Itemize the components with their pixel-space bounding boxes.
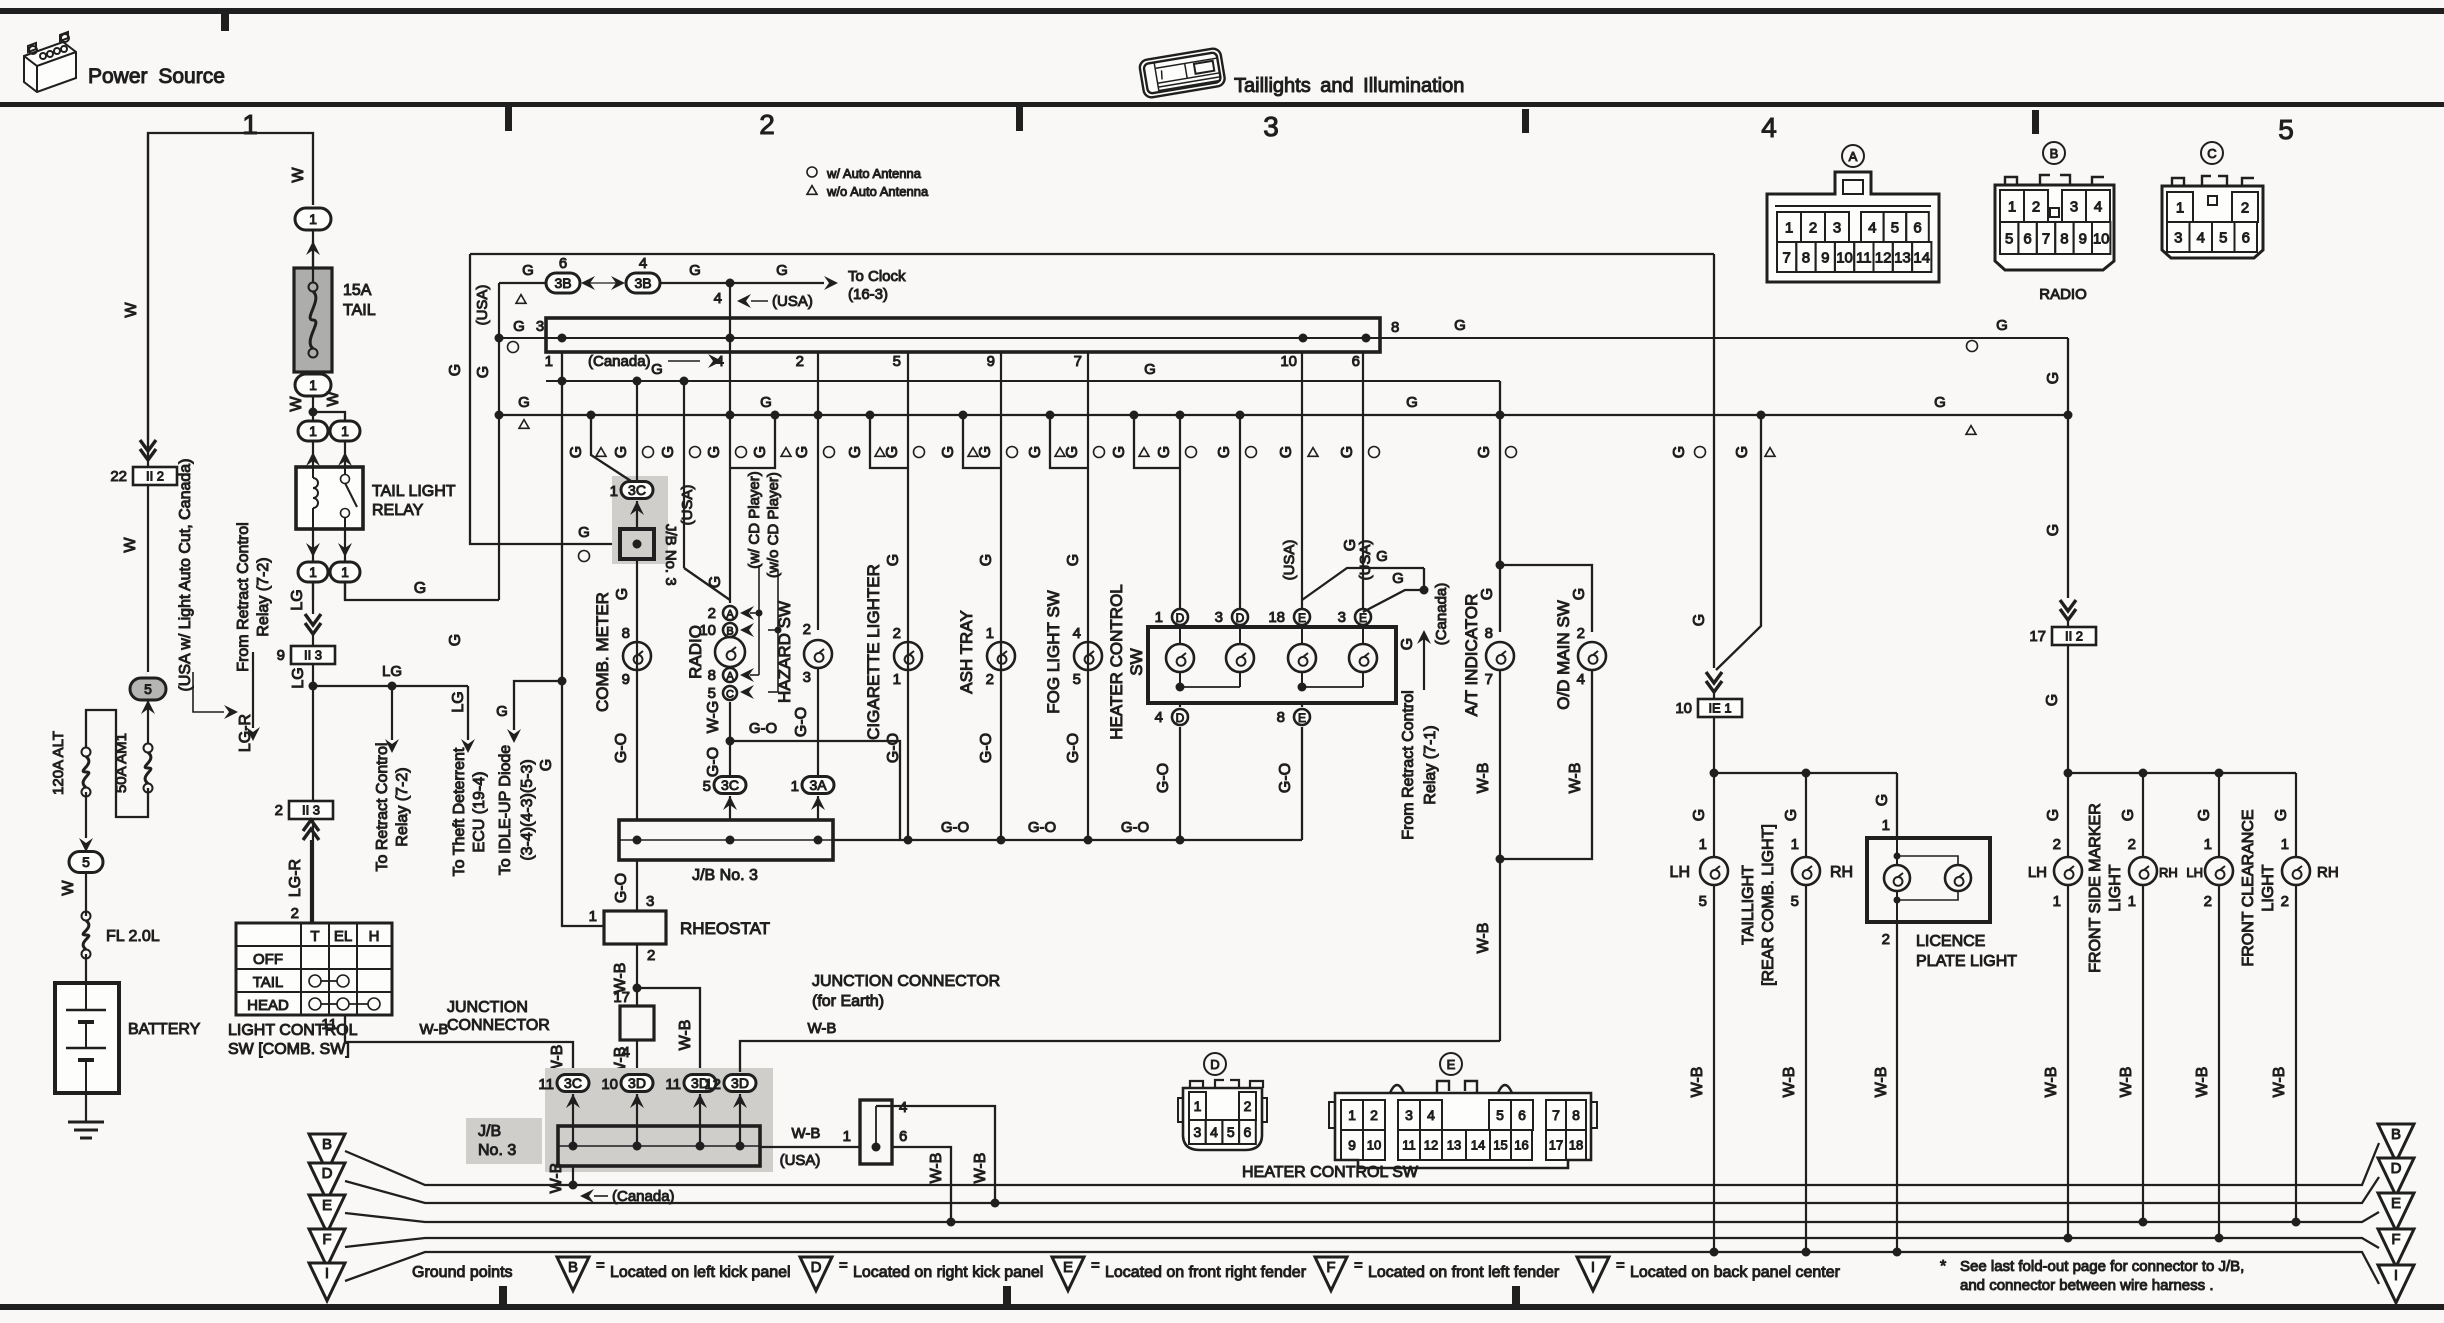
svg-text:G: G <box>1479 588 1496 600</box>
svg-text:B: B <box>322 1136 332 1153</box>
wire 3E Canada diagonal <box>1363 568 1424 612</box>
svg-text:F: F <box>322 1231 331 1248</box>
svg-text:D: D <box>1176 711 1185 725</box>
svg-text:6: 6 <box>2242 229 2250 246</box>
svg-text:W-B: W-B <box>2118 1067 2135 1098</box>
svg-text:4: 4 <box>2094 198 2102 215</box>
svg-text:Ground points: Ground points <box>412 1264 513 1281</box>
svg-text:G: G <box>1339 446 1356 458</box>
ground triangle F (right) <box>2378 1229 2414 1267</box>
svg-text:From Retract Control: From Retract Control <box>1400 690 1417 839</box>
svg-text:6: 6 <box>1518 1107 1526 1123</box>
svg-text:W-B: W-B <box>792 1125 821 1142</box>
svg-text:G: G <box>1571 588 1588 600</box>
svg-text:G: G <box>651 361 663 378</box>
wire radio stub <box>771 411 780 420</box>
light control switch table <box>236 923 392 1015</box>
wire radio main <box>729 283 731 468</box>
svg-text:8: 8 <box>622 625 630 642</box>
svg-text:2: 2 <box>1370 1107 1378 1123</box>
svg-text:(3-4)(4-3)(5-3): (3-4)(4-3)(5-3) <box>519 759 536 860</box>
arrowhead radio 3C <box>723 796 737 810</box>
svg-text:A: A <box>1849 149 1858 164</box>
front lamp column x=2296 <box>2295 773 2297 857</box>
svg-text:8: 8 <box>1485 625 1493 642</box>
svg-text:7: 7 <box>1782 249 1790 266</box>
svg-text:5: 5 <box>1227 1124 1235 1140</box>
connector E diagram <box>1440 1053 1462 1075</box>
svg-text:G-O: G-O <box>1121 819 1149 836</box>
svg-text:14: 14 <box>1913 249 1930 266</box>
svg-text:5: 5 <box>2278 114 2294 145</box>
svg-text:G: G <box>1874 794 1891 806</box>
svg-text:EL: EL <box>334 928 352 945</box>
svg-text:10: 10 <box>2093 230 2110 247</box>
svg-text:HAZARD SW: HAZARD SW <box>775 601 794 703</box>
svg-text:5: 5 <box>1791 893 1799 910</box>
svg-text:6: 6 <box>559 255 567 272</box>
svg-text:1: 1 <box>2176 199 2184 216</box>
svg-text:13: 13 <box>1894 249 1911 266</box>
page arrow down (LG) <box>305 614 321 634</box>
svg-text:W-B: W-B <box>1781 1067 1798 1098</box>
svg-text:LG: LG <box>450 691 467 712</box>
svg-text:W-B: W-B <box>2194 1067 2211 1098</box>
svg-text:3C: 3C <box>721 777 739 793</box>
svg-text:(for Earth): (for Earth) <box>812 993 884 1010</box>
wire jc down <box>636 1040 638 1072</box>
arrowhead hazard 3A <box>811 796 825 810</box>
svg-text:18: 18 <box>1268 609 1285 626</box>
wire heater E8 down <box>1301 727 1303 840</box>
svg-text:6: 6 <box>899 1128 907 1145</box>
svg-text:2: 2 <box>647 947 655 964</box>
svg-text:5: 5 <box>708 685 716 702</box>
front lamp column x=2143 <box>2142 773 2144 857</box>
svg-text:4: 4 <box>1210 1124 1218 1140</box>
ground (battery) <box>85 1093 87 1122</box>
connector 11 3C <box>557 1075 589 1092</box>
wire earth jc pin4 <box>876 1106 995 1203</box>
svg-text:LICENCE: LICENCE <box>1916 933 1985 950</box>
svg-text:3: 3 <box>1405 1107 1413 1123</box>
svg-text:W-B: W-B <box>1475 763 1492 794</box>
ground triangle D (right) <box>2378 1158 2414 1196</box>
svg-text:G: G <box>2196 809 2213 821</box>
svg-text:W: W <box>288 396 305 412</box>
svg-text:G: G <box>707 576 724 588</box>
svg-text:G: G <box>522 262 534 279</box>
svg-text:3: 3 <box>1338 609 1346 626</box>
svg-text:3: 3 <box>2174 229 2182 246</box>
wire heater col4 <box>1362 352 1364 608</box>
wire radio W-G <box>729 702 731 741</box>
svg-text:G: G <box>978 554 995 566</box>
svg-text:3: 3 <box>536 318 544 335</box>
svg-text:COMB. METER: COMB. METER <box>593 592 612 712</box>
svg-text:J/B: J/B <box>478 1123 501 1140</box>
svg-text:C: C <box>726 689 734 701</box>
svg-text:2: 2 <box>759 109 775 140</box>
licence plate light box <box>1867 838 1990 922</box>
svg-text:To Clock: To Clock <box>848 268 906 285</box>
svg-text:W-B: W-B <box>928 1153 945 1184</box>
junction box J/B No.3 (flat) <box>546 318 1380 352</box>
wires ovals to box <box>572 1094 574 1146</box>
svg-text:5: 5 <box>2005 230 2013 247</box>
ground triangle B (left) <box>309 1134 345 1172</box>
svg-text:G: G <box>614 588 631 600</box>
svg-text:(w/o CD Player): (w/o CD Player) <box>765 472 782 578</box>
connector 17 II 2 <box>2052 627 2096 645</box>
svg-text:1: 1 <box>309 564 317 580</box>
svg-text:(USA w/ Light Auto Cut, Canada: (USA w/ Light Auto Cut, Canada) <box>177 458 194 691</box>
rheostat <box>604 911 666 944</box>
wire heater D4 down <box>1179 727 1181 840</box>
node radio G-O split <box>726 737 735 746</box>
svg-text:W-B: W-B <box>677 1020 694 1051</box>
svg-text:G: G <box>2045 809 2062 821</box>
svg-text:G: G <box>1065 554 1082 566</box>
svg-text:18: 18 <box>1569 1138 1583 1153</box>
wire rheostat pin1 feed <box>562 352 604 926</box>
connector 3B right <box>626 273 660 293</box>
svg-text:RH: RH <box>2317 864 2339 881</box>
svg-text:2: 2 <box>708 605 716 622</box>
svg-text:Relay (7-2): Relay (7-2) <box>394 767 411 846</box>
ground triangle F (left) <box>309 1229 345 1267</box>
svg-text:G: G <box>1392 570 1404 587</box>
svg-text:2: 2 <box>275 802 283 819</box>
node W split <box>309 408 318 417</box>
svg-text:RADIO: RADIO <box>686 625 705 679</box>
svg-text:17: 17 <box>1549 1138 1563 1153</box>
svg-text:G: G <box>1406 394 1418 411</box>
svg-text:2: 2 <box>2241 199 2249 216</box>
ash tray column <box>959 411 968 420</box>
connector oval 1 (relay out right) <box>330 562 360 582</box>
svg-text:G: G <box>884 446 901 458</box>
svg-text:[REAR COMB. LIGHT]: [REAR COMB. LIGHT] <box>1760 824 1777 986</box>
svg-text:4: 4 <box>1155 709 1163 726</box>
front lamp column x=2068 <box>2067 773 2069 857</box>
wire to 22 II 2 <box>147 133 149 440</box>
svg-text:(USA): (USA) <box>780 1152 821 1169</box>
node clock to radio <box>726 279 735 288</box>
svg-text:2: 2 <box>803 621 811 638</box>
svg-text:G: G <box>776 262 788 279</box>
wire fuse to relay <box>312 372 314 420</box>
legend triangle D <box>800 1257 832 1291</box>
wire II2 to oval 5 <box>147 486 149 672</box>
svg-text:W-B: W-B <box>548 1163 565 1194</box>
svg-text:5: 5 <box>82 854 90 870</box>
wire clock line <box>499 282 548 284</box>
svg-text:G: G <box>1064 446 1081 458</box>
svg-text:G: G <box>660 446 677 458</box>
svg-text:G: G <box>538 759 555 771</box>
bus G (J/B No.3 flat box feed) <box>499 337 2068 339</box>
svg-text:D: D <box>2391 1160 2402 1177</box>
svg-text:Located on front left fender: Located on front left fender <box>1368 1264 1560 1281</box>
svg-text:D: D <box>1236 611 1245 625</box>
svg-text:A/T INDICATOR: A/T INDICATOR <box>1462 594 1481 717</box>
svg-text:W-B: W-B <box>1873 1067 1890 1098</box>
svg-text:TAIL: TAIL <box>343 302 376 319</box>
svg-text:G-O: G-O <box>613 733 630 763</box>
heater internal wiring <box>1176 683 1185 692</box>
bus G-O <box>833 839 1302 841</box>
lamp heater 4 <box>1349 644 1377 672</box>
svg-text:G: G <box>414 580 426 597</box>
svg-text:2: 2 <box>796 353 804 370</box>
svg-text:G: G <box>2044 694 2061 706</box>
bus marker G <box>2068 772 2296 774</box>
svg-text:3B: 3B <box>634 275 651 291</box>
svg-text:RADIO: RADIO <box>2039 286 2087 303</box>
svg-text:1: 1 <box>893 671 901 688</box>
svg-text:2: 2 <box>2281 893 2289 910</box>
taillight LH column <box>1713 773 1715 857</box>
fuse 50A AM1 <box>144 744 153 753</box>
tail light relay <box>296 467 363 529</box>
wire JB to rheostat <box>636 860 638 911</box>
svg-text:3D: 3D <box>628 1075 646 1091</box>
shade behind bottom J/B <box>545 1068 773 1172</box>
svg-text:2: 2 <box>2204 893 2212 910</box>
node ash G-O <box>997 836 1006 845</box>
svg-text:G: G <box>1216 446 1233 458</box>
connector 3B left <box>585 282 622 284</box>
svg-text:II 2: II 2 <box>146 469 164 484</box>
svg-text:W: W <box>60 880 77 896</box>
svg-text:G: G <box>1691 614 1708 626</box>
wire hazard to 3A <box>817 668 819 776</box>
svg-text:No. 3: No. 3 <box>478 1142 516 1159</box>
marker circle <box>508 342 519 353</box>
connector 3 D heater <box>1232 609 1248 625</box>
svg-text:ECU (19-4): ECU (19-4) <box>471 772 488 853</box>
svg-text:8: 8 <box>1277 709 1285 726</box>
front lamp column x=2219 <box>2218 773 2220 857</box>
node fog G-O <box>1084 836 1093 845</box>
svg-text:1: 1 <box>610 483 618 500</box>
svg-text:(USA): (USA) <box>1357 540 1374 581</box>
svg-text:G: G <box>1783 809 1800 821</box>
fuse FL 2.0L <box>82 912 91 921</box>
svg-text:W-B: W-B <box>1689 1067 1706 1098</box>
svg-text:G: G <box>513 318 525 335</box>
taillight RH down <box>1805 885 1807 1252</box>
annotation Canada bottom <box>580 1189 594 1203</box>
svg-text:D: D <box>811 1259 822 1276</box>
connector C diagram <box>2201 142 2223 164</box>
svg-text:4: 4 <box>1427 1107 1435 1123</box>
svg-text:F: F <box>1326 1259 1335 1276</box>
wire bus B corner to II2 <box>2067 338 2069 598</box>
svg-text:G: G <box>2273 809 2290 821</box>
wire earth jc pin6 <box>892 1147 951 1222</box>
svg-text:IE 1: IE 1 <box>1708 701 1731 716</box>
node LG branch <box>312 665 314 923</box>
svg-text:LH: LH <box>1670 864 1690 881</box>
svg-text:A: A <box>726 609 734 621</box>
svg-text:1: 1 <box>2281 836 2289 853</box>
svg-text:Power Source: Power Source <box>88 65 225 88</box>
svg-text:4: 4 <box>1761 112 1777 143</box>
svg-text:22: 22 <box>110 468 127 485</box>
svg-text:CONNECTOR: CONNECTOR <box>447 1017 550 1034</box>
svg-text:1: 1 <box>341 564 349 580</box>
svg-text:8: 8 <box>1802 249 1810 266</box>
cigarette lighter column <box>866 411 875 420</box>
node cig G-O <box>904 836 913 845</box>
svg-text:G-O: G-O <box>1277 763 1294 793</box>
svg-text:15: 15 <box>1493 1138 1507 1153</box>
svg-text:3: 3 <box>1193 1124 1201 1140</box>
svg-text:(USA): (USA) <box>474 285 491 326</box>
svg-text:G-O: G-O <box>613 873 630 903</box>
svg-text:8: 8 <box>1572 1107 1580 1123</box>
legend triangle E <box>1052 1257 1084 1291</box>
svg-text:(Canada): (Canada) <box>612 1188 675 1205</box>
legend w/o Auto Antenna <box>807 186 817 195</box>
column tick marks <box>505 107 2039 134</box>
svg-text:4: 4 <box>1073 625 1081 642</box>
svg-text:=: = <box>1091 1257 1100 1274</box>
ground triangle E (right) <box>2378 1193 2414 1231</box>
svg-text:7: 7 <box>2042 230 2050 247</box>
lamp hazard <box>804 640 832 668</box>
connector A diagram <box>1842 145 1864 167</box>
wire heater col2 <box>1236 411 1245 420</box>
svg-text:9: 9 <box>277 647 285 664</box>
svg-text:G: G <box>706 446 723 458</box>
wire heater col1 stub <box>1130 411 1139 420</box>
svg-text:G: G <box>794 446 811 458</box>
svg-text:TAIL: TAIL <box>253 974 284 991</box>
junction box J/B No.3 (bottom) <box>558 1126 760 1166</box>
svg-text:13: 13 <box>1447 1138 1461 1153</box>
svg-text:3C: 3C <box>564 1075 582 1091</box>
svg-text:1: 1 <box>843 1128 851 1145</box>
svg-text:G: G <box>496 703 508 720</box>
connector 12 3D <box>724 1075 756 1092</box>
svg-text:E: E <box>1359 611 1367 625</box>
connector oval 1 (above 15A TAIL fuse) <box>295 208 331 230</box>
ground bus B <box>345 1143 2379 1185</box>
svg-text:8: 8 <box>708 667 716 684</box>
svg-text:(USA): (USA) <box>772 293 813 310</box>
svg-text:3: 3 <box>803 669 811 686</box>
wire IE1 stub <box>1757 411 1766 420</box>
junction connector for earth <box>860 1100 892 1164</box>
junction block J/B No. 3 (square) <box>620 529 654 559</box>
svg-text:To Theft Deterrent: To Theft Deterrent <box>451 747 468 876</box>
wire 50A to bracket <box>86 710 148 817</box>
svg-text:3C: 3C <box>628 482 646 498</box>
svg-text:2: 2 <box>1577 625 1585 642</box>
svg-text:and connector between wire har: and connector between wire harness . <box>1960 1277 2213 1294</box>
svg-text:TAIL LIGHT: TAIL LIGHT <box>372 483 456 500</box>
lamp licence 1 <box>1884 865 1910 891</box>
wire loop right to IE1 <box>1713 254 1715 668</box>
wire OD down <box>1500 670 1592 859</box>
svg-text:1: 1 <box>242 109 258 140</box>
svg-text:2: 2 <box>2053 836 2061 853</box>
svg-text:LIGHT: LIGHT <box>2260 864 2277 911</box>
svg-text:I: I <box>2394 1267 2398 1284</box>
wires below relay <box>312 529 314 600</box>
svg-text:4: 4 <box>2197 229 2205 246</box>
svg-text:W-B: W-B <box>2043 1067 2060 1098</box>
svg-text:G-O: G-O <box>1028 819 1056 836</box>
svg-text:(16-3): (16-3) <box>848 286 888 303</box>
connector oval 1 (relay out left) <box>298 562 328 582</box>
svg-text:II 3: II 3 <box>304 648 322 663</box>
svg-text:E: E <box>1298 711 1306 725</box>
connector 11 3D <box>684 1075 716 1092</box>
svg-text:5: 5 <box>1496 1107 1504 1123</box>
svg-text:9: 9 <box>622 671 630 688</box>
battery <box>55 983 119 1093</box>
svg-text:JUNCTION: JUNCTION <box>447 999 528 1016</box>
svg-text:E: E <box>2391 1195 2401 1212</box>
wire IE1 down <box>1713 718 1715 773</box>
svg-text:9: 9 <box>987 353 995 370</box>
svg-text:G-O: G-O <box>1065 733 1082 763</box>
svg-text:T: T <box>310 928 319 945</box>
svg-text:15A: 15A <box>343 282 372 299</box>
svg-text:FRONT SIDE MARKER: FRONT SIDE MARKER <box>2087 803 2104 973</box>
connector 2 II 3 <box>289 801 333 819</box>
connector B pin10 radio <box>723 623 737 637</box>
svg-text:O/D MAIN SW: O/D MAIN SW <box>1554 600 1573 710</box>
connector D diagram <box>1204 1053 1226 1075</box>
svg-text:G: G <box>2045 524 2062 536</box>
svg-text:G: G <box>1278 446 1295 458</box>
legend triangle B <box>557 1257 589 1291</box>
svg-text:5: 5 <box>1699 893 1707 910</box>
svg-text:10: 10 <box>1836 249 1853 266</box>
svg-text:G-O: G-O <box>941 819 969 836</box>
svg-text:5: 5 <box>144 681 152 697</box>
svg-text:14: 14 <box>1471 1138 1485 1153</box>
svg-text:G: G <box>752 446 769 458</box>
svg-text:4: 4 <box>1868 219 1876 236</box>
taillight icon (Taillights and Illumination) <box>1139 47 1226 98</box>
svg-text:3B: 3B <box>554 275 571 291</box>
svg-text:G-O: G-O <box>978 733 995 763</box>
svg-text:OFF: OFF <box>253 951 283 968</box>
svg-text:4: 4 <box>714 290 722 307</box>
svg-text:RELAY: RELAY <box>372 502 424 519</box>
svg-text:D: D <box>1176 611 1185 625</box>
wire radio to connectors <box>729 468 731 603</box>
ground triangle B (right) <box>2378 1124 2414 1162</box>
svg-text:G: G <box>1144 361 1156 378</box>
svg-text:3A: 3A <box>809 777 827 793</box>
svg-text:G: G <box>518 394 530 411</box>
svg-text:4: 4 <box>899 1099 907 1116</box>
svg-text:2: 2 <box>2128 836 2136 853</box>
svg-text:11: 11 <box>1402 1138 1416 1153</box>
wire II2 down <box>2067 646 2069 773</box>
wire W-B branch right <box>637 988 700 1072</box>
wire radio USA line <box>683 381 685 568</box>
marker triangle <box>519 420 529 429</box>
svg-text:W-B: W-B <box>808 1020 837 1037</box>
